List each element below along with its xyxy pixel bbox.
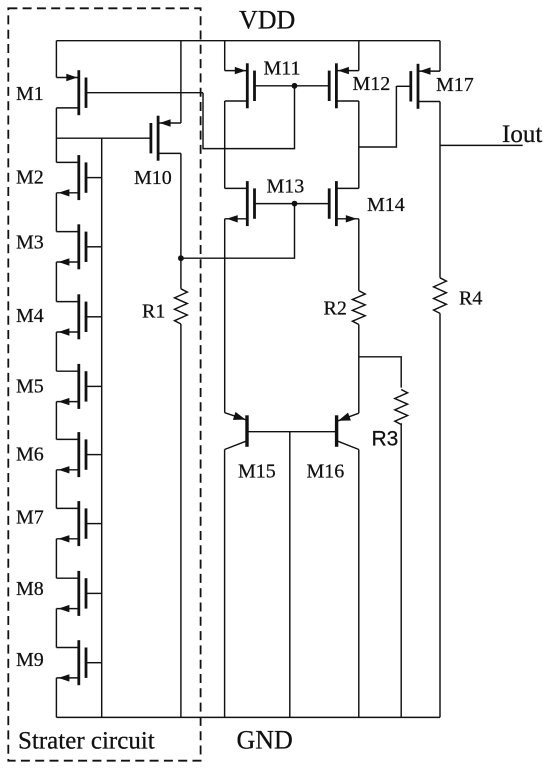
svg-text:M17: M17 [436, 74, 474, 96]
resistor R1 [175, 289, 188, 324]
svg-text:M14: M14 [367, 194, 405, 216]
dashed box: Strater circuit boundary [8, 8, 200, 760]
label M14 [367, 194, 405, 216]
label M7 [16, 507, 44, 529]
transistor M10 [151, 116, 181, 161]
wire: M8 source down to M9 [55, 609, 57, 648]
wire: M1 gate to M11/M12 gate node [203, 86, 295, 149]
label M13 [267, 176, 305, 198]
wire: R3 bottom to GND [400, 423, 402, 717]
svg-text:M9: M9 [16, 649, 44, 671]
wire: VDD to M1 source [55, 41, 57, 78]
wire: M8 gate lead [87, 592, 102, 594]
transistor M7 [56, 501, 86, 546]
svg-text:M6: M6 [16, 443, 44, 465]
resistor R4 [434, 278, 447, 314]
wire: M4 source down to M5 [55, 332, 57, 371]
resistor R2 [352, 291, 365, 325]
wire: M2 source down to M3 [55, 193, 57, 232]
svg-text:M10: M10 [134, 167, 172, 189]
svg-text:M8: M8 [16, 578, 44, 600]
wire: R2 bottom to M16 collector [358, 325, 360, 414]
label Strater circuit [18, 728, 155, 755]
label M11 [264, 58, 301, 80]
svg-text:VDD: VDD [239, 5, 295, 34]
label M9 [16, 649, 44, 671]
wire: M4 gate lead [87, 316, 102, 318]
wire: M9 source to GND [55, 678, 57, 718]
wire: node to M10 gate [56, 137, 150, 139]
transistor M17 [411, 64, 440, 109]
label R3 [372, 427, 399, 450]
wire: VDD to M12 source [358, 41, 360, 71]
svg-text:Iout: Iout [502, 121, 542, 148]
wire: M12 drain to M14 drain [358, 101, 360, 188]
wire: M1 drain down to M2 [55, 108, 57, 162]
label M6 [16, 443, 44, 465]
node: M11 gate junction [292, 83, 298, 89]
resistor R3 [395, 390, 408, 425]
wire: M3 source down to M4 [55, 262, 57, 302]
transistor M14 [329, 181, 359, 226]
svg-text:R2: R2 [324, 298, 347, 320]
wire: M2 gate lead [87, 177, 102, 179]
wire: VDD to M11 source [224, 41, 226, 71]
transistor M3 [56, 224, 86, 269]
wire: VDD corner to M17 source [439, 41, 441, 71]
transistor M8 [56, 571, 86, 616]
wire: M12 drain to M17 gate [359, 86, 397, 147]
transistor M11 [225, 63, 255, 108]
svg-text:M5: M5 [16, 376, 44, 398]
wire: M6 source down to M7 [55, 470, 57, 509]
svg-text:R3: R3 [372, 427, 399, 450]
transistor M15 (BJT) [225, 412, 247, 450]
svg-text:M11: M11 [264, 58, 301, 80]
transistor M2 [56, 155, 86, 200]
wire: M9 gate lead [87, 662, 102, 664]
label VDD [239, 5, 295, 34]
transistor M4 [56, 294, 86, 339]
transistor M9 [56, 640, 86, 685]
wire: M7 source down to M8 [55, 539, 57, 578]
wire: M6 gate lead [87, 454, 102, 456]
transistor M12 [329, 63, 359, 108]
transistor M1 [56, 70, 86, 115]
wire: VDD rail [56, 40, 440, 42]
wire: M15 emitter to GND [224, 450, 226, 718]
transistor M16 (BJT) [337, 413, 359, 450]
svg-text:M4: M4 [16, 305, 44, 327]
label M3 [16, 232, 44, 254]
wire: M15/M16 base tie [248, 431, 335, 433]
wire: VDD to M10 source [180, 41, 182, 123]
wire: M5 source down to M6 [55, 402, 57, 440]
label M1 [16, 83, 44, 105]
svg-text:M12: M12 [353, 73, 391, 95]
label M5 [16, 376, 44, 398]
wire: M17 drain down to R4 [439, 102, 441, 278]
label M15 [238, 461, 276, 483]
label M12 [353, 73, 391, 95]
wire: R4 bottom to GND [439, 313, 441, 717]
wire: base node to GND [289, 432, 291, 718]
wire: M14 source to R2 [358, 219, 360, 291]
label GND [237, 726, 293, 755]
node: M13 gate junction [292, 201, 298, 207]
wire: M5 gate lead [87, 385, 102, 387]
label M10 [134, 167, 172, 189]
wire: M1 gate lead [87, 92, 204, 94]
wire: M7 gate lead [87, 523, 102, 525]
wire: M10 drain down to R1 [180, 153, 182, 288]
svg-text:M16: M16 [307, 461, 345, 483]
svg-text:M7: M7 [16, 507, 44, 529]
wire: tap to R3 [359, 357, 401, 388]
wire: gate spine of chain [101, 138, 103, 717]
label R1 [142, 301, 165, 323]
wire: M13/M14 gate lead [255, 203, 330, 205]
svg-text:R4: R4 [459, 288, 482, 310]
svg-text:M2: M2 [16, 167, 44, 189]
svg-text:R1: R1 [142, 301, 165, 323]
wire: GND rail [56, 716, 440, 718]
svg-text:M15: M15 [238, 461, 276, 483]
label M8 [16, 578, 44, 600]
svg-text:M13: M13 [267, 176, 305, 198]
wire: R1 bottom to GND [180, 324, 182, 717]
wire: M11 drain to M13 drain [224, 101, 226, 188]
node: R1 top junction [178, 255, 184, 261]
label Iout [502, 121, 542, 148]
wire: M3 gate lead [87, 246, 102, 248]
transistor M5 [56, 364, 86, 409]
wire: M16 emitter to GND [358, 450, 360, 718]
svg-text:M3: M3 [16, 232, 44, 254]
wire: Iout output line [440, 144, 523, 146]
label M17 [436, 74, 474, 96]
transistor M13 [225, 181, 255, 226]
svg-text:M1: M1 [16, 83, 44, 105]
wire: R1 node to M13/M14 gates [181, 204, 295, 259]
wire: M17 gate lead [396, 85, 410, 87]
transistor M6 [56, 432, 86, 477]
label M2 [16, 167, 44, 189]
svg-text:Strater circuit: Strater circuit [18, 728, 155, 755]
wire: M13 source to M15 collector [224, 219, 226, 413]
label R4 [459, 288, 482, 310]
svg-text:GND: GND [237, 726, 293, 755]
label M4 [16, 305, 44, 327]
wire: M11/M12 gate lead [255, 85, 330, 87]
label M16 [307, 461, 345, 483]
label R2 [324, 298, 347, 320]
